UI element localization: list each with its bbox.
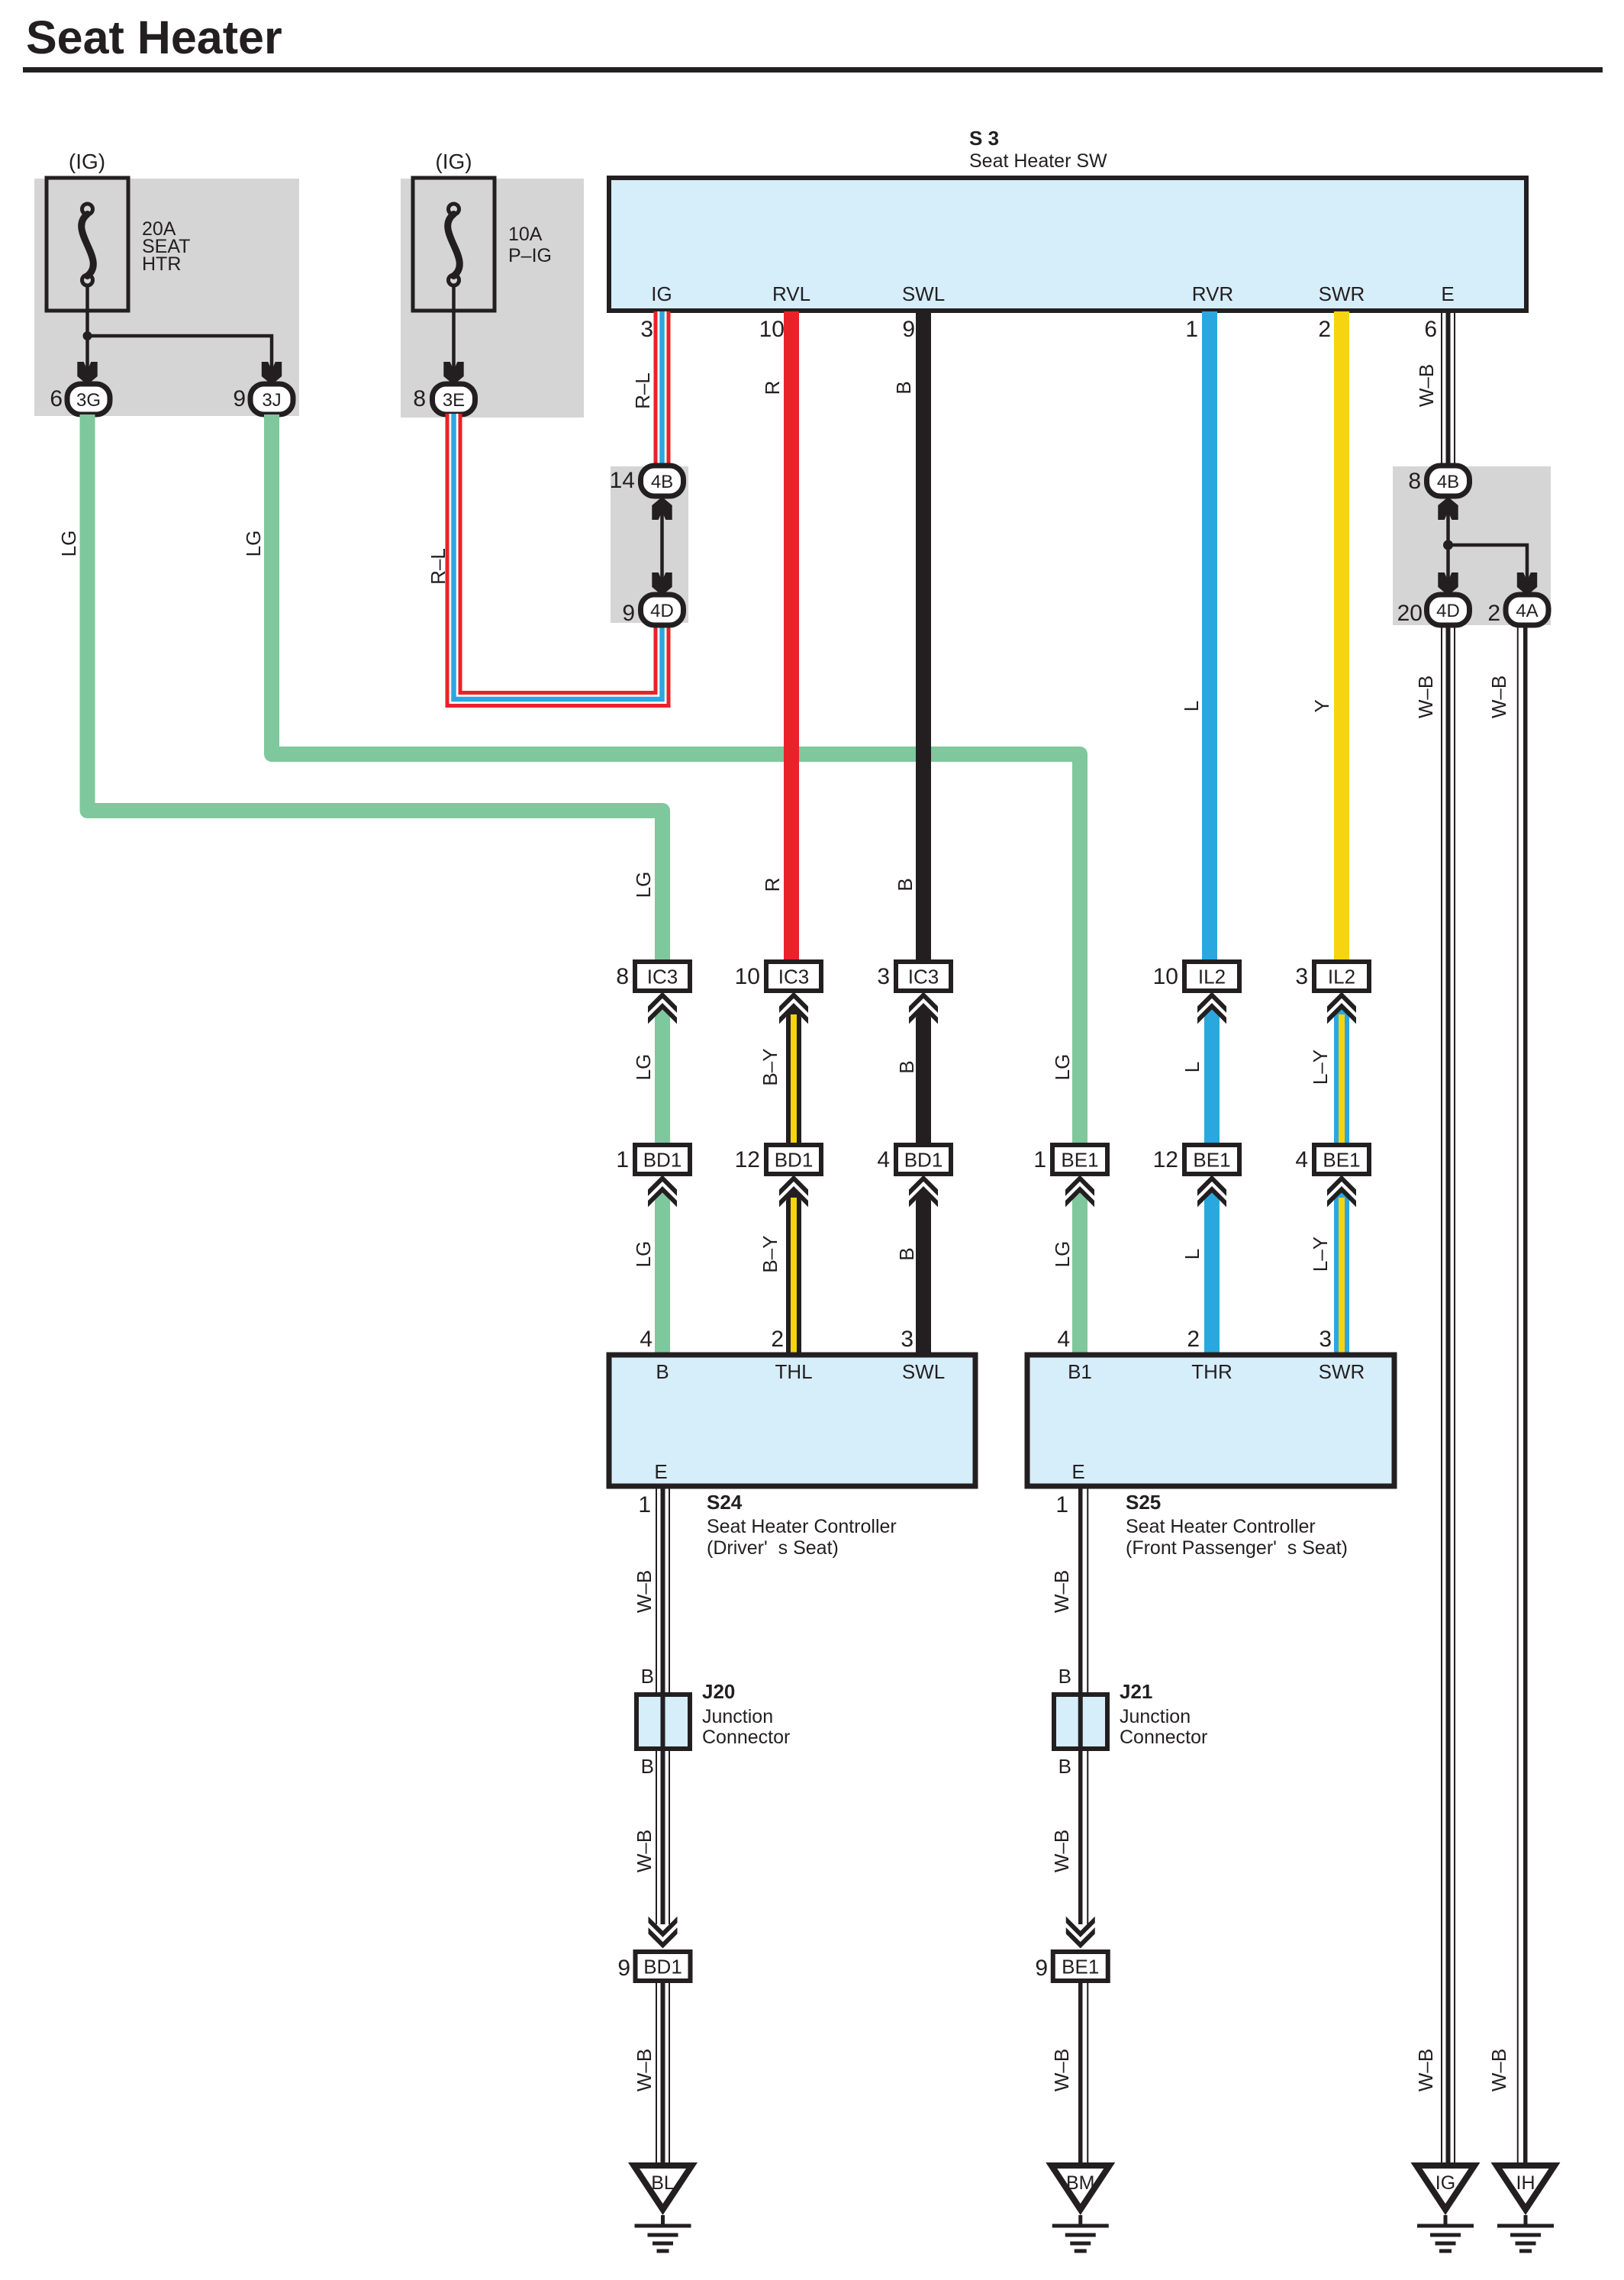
svg-text:Connector: Connector xyxy=(1120,1727,1207,1748)
svg-text:14: 14 xyxy=(610,468,635,493)
chevron IC3 col2 xyxy=(779,992,808,1013)
svg-text:IC3: IC3 xyxy=(908,966,939,988)
svg-text:2: 2 xyxy=(1318,317,1331,342)
svg-text:LG: LG xyxy=(1051,1054,1074,1081)
svg-text:L: L xyxy=(1180,701,1203,711)
svg-text:10: 10 xyxy=(1153,964,1178,989)
fuse block 1 background xyxy=(34,179,299,416)
svg-text:3G: 3G xyxy=(76,390,101,411)
svg-text:L–Y: L–Y xyxy=(1309,1237,1332,1272)
svg-text:W–B: W–B xyxy=(633,1830,656,1872)
chevron BE1 col4 xyxy=(1065,1175,1094,1196)
svg-text:W–B: W–B xyxy=(1487,676,1510,718)
svg-text:B: B xyxy=(1058,1755,1071,1778)
wire branch to 3J xyxy=(88,336,272,374)
svg-text:Connector: Connector xyxy=(702,1727,790,1748)
svg-text:LG: LG xyxy=(1051,1241,1074,1268)
svg-text:IG: IG xyxy=(651,282,672,305)
ground BM xyxy=(1046,2162,1115,2215)
wire W-B from 4D to ground IG xyxy=(1441,624,1442,2165)
connector 3G xyxy=(67,384,110,414)
svg-text:IL2: IL2 xyxy=(1328,966,1355,988)
arrow down into 4D right xyxy=(1438,572,1458,595)
wire fuse2 lead xyxy=(452,285,456,374)
svg-text:W–B: W–B xyxy=(1415,364,1438,407)
svg-text:RVR: RVR xyxy=(1192,282,1233,305)
svg-text:W–B: W–B xyxy=(1050,1830,1073,1872)
svg-text:(IG): (IG) xyxy=(69,150,105,173)
svg-text:4B: 4B xyxy=(1437,472,1459,492)
svg-text:W–B: W–B xyxy=(1414,2049,1437,2091)
connector IC3 col3 xyxy=(896,962,951,991)
fuse F1 20A SEAT HTR xyxy=(47,178,128,311)
wire B IC3-BD1 xyxy=(916,1008,931,1146)
title rule xyxy=(23,67,1603,73)
wire internal 4B down xyxy=(1446,508,1450,545)
wire LG BD1-S24 xyxy=(655,1191,670,1356)
svg-text:BE1: BE1 xyxy=(1323,1149,1360,1172)
wire LG IC3-BD1 xyxy=(655,1008,670,1146)
svg-text:4B: 4B xyxy=(651,472,673,492)
svg-text:BE1: BE1 xyxy=(1062,1956,1099,1978)
svg-text:BD1: BD1 xyxy=(643,1149,682,1172)
svg-text:W–B: W–B xyxy=(1050,1570,1073,1613)
svg-text:B: B xyxy=(641,1665,654,1688)
svg-text:L: L xyxy=(1181,1249,1203,1259)
svg-text:BD1: BD1 xyxy=(643,1956,682,1978)
wire internal 4B-4D xyxy=(660,509,664,589)
svg-text:2: 2 xyxy=(771,1327,784,1352)
svg-text:SWL: SWL xyxy=(902,1360,945,1383)
svg-text:2: 2 xyxy=(1487,601,1500,626)
svg-text:IC3: IC3 xyxy=(647,966,678,988)
svg-text:4: 4 xyxy=(640,1327,652,1352)
connector IC3 col2 xyxy=(766,962,821,991)
svg-text:SWR: SWR xyxy=(1319,282,1365,305)
chevron BD1 col3 xyxy=(909,1175,938,1196)
connector 4A xyxy=(1506,595,1548,625)
svg-text:B: B xyxy=(1058,1665,1071,1688)
chevron IL2 col6 xyxy=(1327,992,1356,1013)
svg-text:3: 3 xyxy=(1295,964,1308,989)
svg-text:R–L: R–L xyxy=(427,548,449,585)
chevron down into BE1 bottom xyxy=(1066,1927,1095,1948)
wire L IL2-BE1 xyxy=(1204,1008,1220,1146)
svg-text:BE1: BE1 xyxy=(1061,1149,1098,1172)
svg-text:12: 12 xyxy=(735,1147,760,1172)
connector BD1 col3 xyxy=(896,1145,951,1174)
arrow up into 4B right xyxy=(1438,497,1458,520)
wire LG from 3J to BE1 pin1 xyxy=(272,414,1080,1146)
svg-text:BL: BL xyxy=(651,2172,675,2194)
svg-text:IL2: IL2 xyxy=(1198,966,1226,988)
wire W-B from 4A to ground IH xyxy=(1517,624,1519,2165)
wire W-B from S24 E to ground BL xyxy=(656,1486,657,1924)
svg-text:3: 3 xyxy=(1319,1327,1332,1352)
svg-text:BD1: BD1 xyxy=(904,1149,943,1172)
chevron IC3 col3 xyxy=(909,992,938,1013)
svg-text:(IG): (IG) xyxy=(435,150,472,173)
svg-text:4: 4 xyxy=(877,1147,890,1172)
svg-text:THR: THR xyxy=(1191,1360,1232,1383)
chevron BE1 col5 xyxy=(1197,1175,1226,1196)
chevron IL2 col5 xyxy=(1197,992,1226,1013)
svg-text:LG: LG xyxy=(57,530,80,557)
svg-text:3J: 3J xyxy=(262,390,281,411)
wire W-B from S25 E to ground BM xyxy=(1078,1486,1083,1924)
wire R from S3 RVL xyxy=(784,311,799,963)
svg-text:B1: B1 xyxy=(1068,1360,1092,1383)
svg-text:20: 20 xyxy=(1397,601,1423,626)
arrow down into 4D xyxy=(652,572,672,595)
wire W-B from S3 E to 4B xyxy=(1441,311,1442,468)
svg-text:1: 1 xyxy=(638,1492,651,1517)
wire B BD1-S24 xyxy=(916,1191,931,1356)
svg-text:3E: 3E xyxy=(443,390,465,411)
wire L from S3 RVR xyxy=(1202,311,1217,963)
svg-text:6: 6 xyxy=(1424,317,1437,342)
connector BE1 col5 xyxy=(1184,1145,1239,1174)
svg-text:J20: J20 xyxy=(702,1680,735,1703)
wire LG from 3G to IC3 pin8 xyxy=(88,414,663,963)
svg-text:Seat Heater: Seat Heater xyxy=(26,11,282,63)
wire LG BE1-S25 xyxy=(1072,1191,1087,1356)
svg-text:8: 8 xyxy=(413,386,426,411)
chevron IC3 col1 xyxy=(648,992,677,1013)
wire B-Y IC3-BD1 xyxy=(786,1008,801,1146)
svg-text:1: 1 xyxy=(1033,1147,1046,1172)
svg-text:8: 8 xyxy=(616,964,629,989)
svg-text:S24: S24 xyxy=(707,1491,743,1514)
svg-text:IC3: IC3 xyxy=(778,966,809,988)
svg-text:4A: 4A xyxy=(1516,601,1538,621)
svg-text:BM: BM xyxy=(1066,2172,1095,2194)
wire R-L from 4D to 3E xyxy=(454,414,662,699)
arrow into 3J xyxy=(262,362,282,385)
wire L-Y IL2-BE1 xyxy=(1334,1008,1349,1146)
svg-text:1: 1 xyxy=(616,1147,629,1172)
wire L-Y BE1-S25 xyxy=(1334,1191,1349,1356)
junction block 4B-4D-4A background xyxy=(1393,466,1551,625)
svg-text:(Driver' s Seat): (Driver' s Seat) xyxy=(707,1537,839,1559)
arrow into 3G xyxy=(77,362,97,385)
svg-text:LG: LG xyxy=(632,1054,655,1081)
chevron BD1 col1 xyxy=(648,1175,677,1196)
svg-text:Seat Heater SW: Seat Heater SW xyxy=(969,150,1107,172)
fuse F2 10A P-IG xyxy=(413,178,495,311)
svg-text:1: 1 xyxy=(1055,1492,1068,1517)
wire L BE1-S25 xyxy=(1204,1191,1220,1356)
connector 4D (middle) xyxy=(641,595,684,625)
svg-text:Seat Heater Controller: Seat Heater Controller xyxy=(707,1516,897,1537)
svg-text:(Front Passenger' s Seat): (Front Passenger' s Seat) xyxy=(1126,1537,1348,1559)
svg-text:3: 3 xyxy=(877,964,890,989)
svg-text:12: 12 xyxy=(1153,1147,1178,1172)
connector IL2 col6 xyxy=(1314,962,1369,991)
svg-text:Junction: Junction xyxy=(1120,1706,1191,1727)
arrow down into 4A xyxy=(1517,572,1537,595)
junction connector J20 xyxy=(636,1695,690,1749)
svg-text:S25: S25 xyxy=(1126,1491,1161,1514)
svg-text:B–Y: B–Y xyxy=(759,1048,781,1085)
svg-text:B–Y: B–Y xyxy=(759,1235,781,1272)
svg-text:BE1: BE1 xyxy=(1193,1149,1230,1172)
svg-text:1: 1 xyxy=(1185,317,1198,342)
svg-text:R–L: R–L xyxy=(631,372,654,409)
svg-text:W–B: W–B xyxy=(1487,2049,1510,2091)
svg-text:LG: LG xyxy=(632,872,655,898)
node junction dot right xyxy=(1443,540,1453,550)
svg-text:4: 4 xyxy=(1295,1147,1308,1172)
svg-text:P–IG: P–IG xyxy=(508,245,552,266)
wire Y from S3 SWR xyxy=(1334,311,1349,963)
junction connector J21 xyxy=(1054,1695,1107,1749)
wire R-L from S3 IG to 4B xyxy=(654,311,671,468)
svg-text:SWL: SWL xyxy=(902,282,945,305)
connector BE1 bottom xyxy=(1053,1952,1108,1981)
svg-text:Junction: Junction xyxy=(702,1706,773,1727)
svg-text:10: 10 xyxy=(735,964,760,989)
wire fuse1 lead xyxy=(85,285,89,374)
connector IL2 col5 xyxy=(1184,962,1239,991)
svg-text:9: 9 xyxy=(622,601,635,626)
svg-text:B: B xyxy=(895,1247,918,1260)
ground IG xyxy=(1411,2162,1481,2215)
svg-text:L: L xyxy=(1181,1062,1203,1072)
svg-text:BD1: BD1 xyxy=(775,1149,814,1172)
wire B from S3 SWL xyxy=(916,311,931,963)
svg-text:RVL: RVL xyxy=(772,282,810,305)
wire branch to 4A xyxy=(1448,545,1528,586)
svg-text:W–B: W–B xyxy=(1414,676,1437,718)
wire internal to 4D right xyxy=(1446,545,1450,586)
controller S24 box xyxy=(609,1355,975,1486)
svg-text:R: R xyxy=(761,381,784,395)
svg-text:9: 9 xyxy=(1035,1956,1048,1981)
node junction dot fuse1 xyxy=(83,331,92,340)
svg-text:B: B xyxy=(894,878,917,891)
svg-text:R: R xyxy=(761,878,784,892)
svg-text:THL: THL xyxy=(775,1360,812,1383)
connector BE1 col4 xyxy=(1052,1145,1107,1174)
connector 3J xyxy=(250,384,293,414)
svg-text:L–Y: L–Y xyxy=(1309,1050,1332,1085)
junction block 4B-4D background xyxy=(611,466,688,623)
svg-text:3: 3 xyxy=(901,1327,913,1352)
svg-text:6: 6 xyxy=(50,386,63,411)
connector BD1 bottom xyxy=(636,1952,691,1981)
svg-text:SWR: SWR xyxy=(1319,1360,1365,1383)
connector BD1 col1 xyxy=(635,1145,690,1174)
svg-text:10A: 10A xyxy=(508,224,543,245)
connector 4B (middle) xyxy=(641,466,684,496)
svg-text:E: E xyxy=(1441,282,1454,305)
chevron BD1 col2 xyxy=(779,1175,808,1196)
svg-text:B: B xyxy=(892,381,915,394)
svg-text:4: 4 xyxy=(1057,1327,1070,1352)
svg-text:IG: IG xyxy=(1435,2172,1455,2194)
chevron down into BD1 bottom xyxy=(649,1927,678,1948)
wire B-Y BD1-S24 xyxy=(786,1191,801,1356)
svg-text:HTR: HTR xyxy=(142,253,181,275)
svg-text:LG: LG xyxy=(632,1241,655,1268)
fuse block 2 background xyxy=(401,179,584,418)
chevron BE1 col6 xyxy=(1327,1175,1356,1196)
svg-text:IH: IH xyxy=(1516,2172,1535,2194)
svg-text:4D: 4D xyxy=(1436,601,1460,621)
svg-text:9: 9 xyxy=(902,317,915,342)
connector 3E xyxy=(433,384,475,414)
svg-text:S 3: S 3 xyxy=(969,127,999,150)
svg-text:W–B: W–B xyxy=(633,1570,656,1613)
arrow into 3E xyxy=(443,362,463,385)
svg-text:4D: 4D xyxy=(650,601,674,621)
connector BE1 col6 xyxy=(1314,1145,1369,1174)
svg-text:J21: J21 xyxy=(1120,1680,1152,1703)
svg-text:B: B xyxy=(895,1060,918,1073)
connector 4D (right) xyxy=(1427,595,1470,625)
svg-text:9: 9 xyxy=(617,1956,630,1981)
svg-text:3: 3 xyxy=(640,317,653,342)
svg-text:W–B: W–B xyxy=(1050,2049,1073,2091)
svg-text:B: B xyxy=(641,1755,654,1778)
ground IH xyxy=(1491,2162,1561,2215)
svg-text:E: E xyxy=(654,1460,667,1483)
svg-text:W–B: W–B xyxy=(633,2049,656,2091)
svg-text:E: E xyxy=(1071,1460,1084,1483)
svg-text:Seat Heater Controller: Seat Heater Controller xyxy=(1126,1516,1316,1537)
connector IC3 col1 xyxy=(635,962,690,991)
svg-text:10: 10 xyxy=(759,317,785,342)
connector 4B (right) xyxy=(1427,466,1470,496)
svg-text:2: 2 xyxy=(1187,1327,1200,1352)
switch S3 Seat Heater SW box xyxy=(609,178,1526,311)
svg-text:LG: LG xyxy=(242,530,265,557)
arrow up into 4B xyxy=(652,497,672,520)
svg-text:Y: Y xyxy=(1310,699,1333,712)
connector BD1 col2 xyxy=(766,1145,821,1174)
ground BL xyxy=(628,2162,698,2215)
svg-text:9: 9 xyxy=(233,386,246,411)
svg-text:B: B xyxy=(656,1360,669,1383)
svg-text:8: 8 xyxy=(1408,469,1421,494)
controller S25 box xyxy=(1027,1355,1394,1486)
